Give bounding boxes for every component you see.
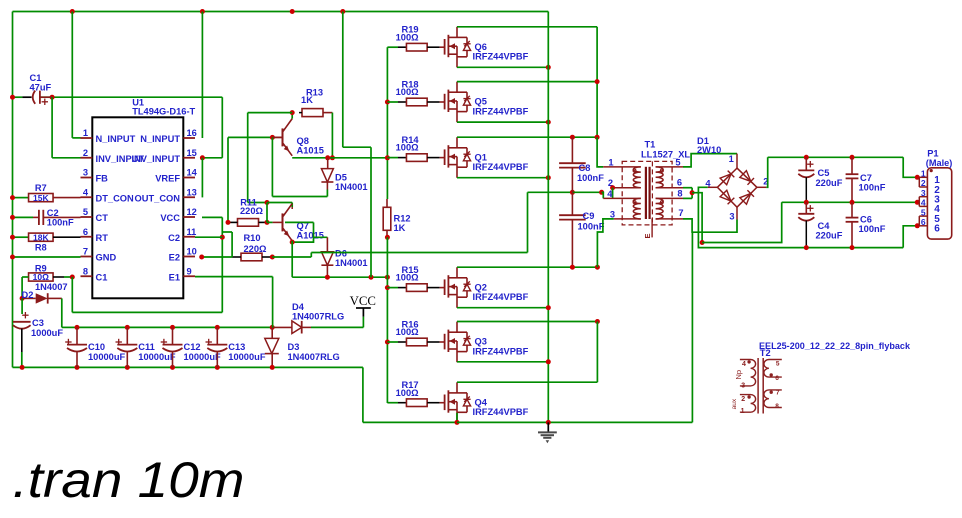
pin 15 U1 (131, 148, 196, 164)
svg-text:11: 11 (187, 227, 197, 237)
junction D3 bottom (270, 365, 275, 370)
svg-text:1: 1 (608, 157, 613, 167)
svg-text:100Ω: 100Ω (396, 388, 420, 398)
junction Q5 source (546, 120, 551, 125)
junction top rail x=343 (340, 9, 345, 14)
svg-text:R10: R10 (243, 233, 260, 243)
svg-text:7: 7 (83, 247, 88, 257)
svg-text:IRFZ44VPBF: IRFZ44VPBF (473, 292, 529, 302)
transistor Q4 (431, 382, 529, 423)
junction P1 pin6 (915, 223, 920, 228)
junction C7 top (850, 155, 855, 160)
pin E T1 shield (643, 219, 652, 239)
wire Q8 base red (272, 136, 282, 138)
svg-text:6: 6 (775, 375, 779, 382)
svg-text:100Ω: 100Ω (396, 273, 420, 283)
svg-text:Q6: Q6 (475, 42, 487, 52)
svg-text:D3: D3 (288, 342, 300, 352)
winding T1 secondary-bottom (656, 198, 664, 219)
transformer T1 box (622, 140, 690, 225)
pin 16 U1 (140, 128, 197, 144)
svg-text:VCC: VCC (160, 213, 180, 223)
resistor R9 (22, 263, 72, 282)
wire center-tap row (528, 191, 573, 193)
wire capacitor-bank top rail (77, 326, 272, 328)
pin 12 U1 (160, 207, 196, 223)
pin 1 U1 (81, 128, 136, 144)
junction C8 top (570, 135, 575, 140)
junction gate-row-277 (385, 275, 390, 280)
svg-text:5: 5 (83, 207, 88, 217)
svg-text:Q4: Q4 (475, 397, 488, 407)
transistor Q1 (431, 137, 529, 178)
svg-text:13: 13 (187, 187, 197, 197)
resistor R19 (396, 25, 431, 51)
svg-text:5: 5 (675, 157, 680, 167)
wire D2 cathode down (62, 298, 77, 327)
pin 8 T1 (656, 189, 683, 199)
capacitor C2 (33, 208, 81, 228)
svg-text:T1: T1 (645, 140, 656, 150)
diode D4 (272, 302, 344, 334)
svg-text:100nF: 100nF (859, 224, 886, 234)
junction C10 top (75, 325, 80, 330)
junction top rail x=202 (200, 9, 205, 14)
svg-text:220Ω: 220Ω (240, 206, 264, 216)
svg-text:D6: D6 (335, 248, 347, 258)
wire pin2 link (52, 97, 80, 158)
svg-text:8: 8 (83, 266, 88, 276)
svg-text:2: 2 (921, 178, 926, 188)
resistor R16 (396, 319, 431, 345)
transistor Q2 (431, 267, 529, 308)
wire Q6 source (457, 66, 548, 68)
junction C5 top (804, 155, 809, 160)
svg-text:1K: 1K (301, 95, 313, 105)
wire Q2 drain (457, 266, 597, 268)
svg-text:aux: aux (731, 398, 738, 409)
svg-text:Q3: Q3 (475, 337, 487, 347)
wire T1.7 to D1.3 (683, 219, 737, 232)
svg-text:N_INPUT: N_INPUT (140, 134, 180, 144)
junction C2 left (10, 215, 15, 220)
svg-text:100Ω: 100Ω (396, 327, 420, 337)
svg-text:R7: R7 (35, 183, 47, 193)
svg-text:220uF: 220uF (816, 178, 843, 188)
junction C1 left (10, 95, 15, 100)
svg-text:C1: C1 (96, 272, 108, 282)
pin 11 U1 (168, 227, 196, 243)
wire ground-rail step (363, 367, 457, 422)
junction T1 pin2 (610, 185, 615, 190)
junction C4 bottom (804, 245, 809, 250)
svg-text:1N4007RLG: 1N4007RLG (292, 311, 344, 321)
wire GND pin7 row (13, 256, 81, 258)
junction R8 left (10, 235, 15, 240)
svg-text:C11: C11 (138, 342, 155, 352)
junction R13 left (290, 110, 295, 115)
svg-text:GND: GND (96, 253, 117, 263)
junction Q8 base (270, 135, 275, 140)
directive .tran (13, 452, 245, 508)
winding T2 Np (734, 360, 755, 390)
wire bottom rail to P1.6 (903, 226, 917, 248)
wire pin1 link (72, 12, 80, 138)
resistor R12 (383, 158, 410, 238)
svg-text:4: 4 (921, 198, 926, 208)
svg-text:14: 14 (187, 168, 198, 178)
junction D3 top (270, 325, 275, 330)
diode-bridge D1 (697, 136, 768, 221)
wire D1.3 down tail (691, 232, 693, 422)
wire sec tap out (692, 193, 702, 243)
winding T2 sec-top (764, 360, 782, 382)
wire D5 bottom link (272, 137, 327, 196)
capacitor C1 (22, 73, 52, 105)
svg-text:VCC: VCC (350, 294, 376, 308)
junction C9 bottom (570, 265, 575, 270)
svg-text:10Ω: 10Ω (33, 272, 49, 282)
transistor Q6 (431, 27, 529, 68)
junction top rail x=292 (290, 9, 295, 14)
junction D5 top (325, 155, 330, 160)
junction Q7 collector node (265, 200, 270, 205)
svg-text:12: 12 (187, 207, 197, 217)
junction vcc-drop (369, 275, 374, 280)
junction D2 anode (20, 296, 25, 301)
svg-text:D2: D2 (22, 290, 34, 300)
winding T1 primary-top (633, 167, 641, 188)
wire R7 row (13, 197, 29, 199)
svg-text:15: 15 (187, 148, 197, 158)
pin 7 U1 (81, 247, 117, 263)
svg-text:100nF: 100nF (47, 218, 74, 228)
svg-text:C7: C7 (860, 173, 872, 183)
svg-text:10000uF: 10000uF (138, 352, 176, 362)
svg-text:220Ω: 220Ω (244, 244, 268, 254)
svg-text:R12: R12 (394, 213, 411, 223)
junction Q3 drain (595, 319, 600, 324)
capacitor C13 (206, 327, 266, 367)
wire center-tap to T1 (572, 191, 601, 193)
capacitor C5 (798, 157, 842, 202)
wire Q3 drain (457, 321, 597, 323)
pin 1 T1 (603, 157, 641, 167)
junction pin7 left (10, 255, 15, 260)
junction R11 right (265, 220, 270, 225)
wire gate rail lower (386, 237, 388, 403)
connector P1 (919, 149, 952, 240)
svg-text:LL1527_XL: LL1527_XL (641, 149, 690, 159)
svg-text:OUT_CON: OUT_CON (135, 193, 181, 203)
svg-text:8: 8 (775, 403, 779, 410)
wire Q8 emitter row (292, 157, 387, 159)
pin 6 T1 (656, 177, 683, 187)
resistor R11 (228, 198, 267, 227)
wire bottom-left rail (13, 366, 363, 368)
junction top rail x=73 (70, 9, 75, 14)
wire D6 top link (285, 222, 327, 242)
svg-text:E: E (643, 233, 652, 238)
svg-text:1: 1 (729, 154, 734, 164)
wire Q1 source (457, 177, 548, 179)
wire D1.2 to top rail (766, 157, 767, 187)
wire source rail (547, 12, 549, 423)
resistor R8 (29, 232, 81, 252)
svg-text:INV_INPUT: INV_INPUT (131, 154, 180, 164)
capacitor C11 (116, 327, 176, 367)
svg-text:4: 4 (83, 187, 89, 197)
wire Q7 emitter down (291, 241, 293, 277)
op-amp U1 TL494G-D16-T body (92, 98, 195, 299)
svg-text:1N4001: 1N4001 (335, 182, 368, 192)
svg-text:IRFZ44VPBF: IRFZ44VPBF (473, 407, 529, 417)
junction C13 top (215, 325, 220, 330)
junction C12 top (170, 325, 175, 330)
wire pin13-14 tie (201, 158, 203, 198)
wire pin11 link (195, 236, 222, 238)
junction R11 left (226, 220, 231, 225)
wire T1 pin3 link (597, 219, 613, 267)
pin 3 U1 (81, 168, 109, 184)
wire Q6 drain (457, 26, 597, 28)
wire Q3 source (457, 361, 548, 363)
junction Q6 source (546, 65, 551, 70)
wire T1 pin6-8 tie (683, 188, 692, 199)
wire E2 pin10 link (202, 256, 232, 258)
svg-text:100Ω: 100Ω (396, 32, 420, 42)
junction Q1 source (546, 175, 551, 180)
wire center-tap riser (527, 192, 529, 252)
svg-text:1: 1 (741, 408, 745, 415)
wire ground rail right (457, 421, 692, 423)
wire emitter row (272, 253, 527, 258)
wire Q2 source (457, 307, 548, 309)
junction C11 bottom (125, 365, 130, 370)
capacitor C10 (65, 327, 125, 367)
svg-text:Np: Np (734, 370, 743, 380)
svg-text:6: 6 (934, 224, 940, 235)
junction D6 bottom (325, 275, 330, 280)
svg-text:C3: C3 (32, 318, 44, 328)
wire pin16 link (201, 12, 203, 139)
winding T2 sec-bottom (764, 390, 782, 411)
junction Q5 drain (595, 79, 600, 84)
resistor R14 (396, 135, 431, 161)
wire mid-rail link (702, 202, 782, 242)
svg-text:DT_CON: DT_CON (96, 193, 135, 203)
wire drain rail (596, 27, 598, 137)
svg-text:2: 2 (741, 396, 745, 403)
resistor R15 (396, 265, 431, 291)
junction C13 bottom (215, 365, 220, 370)
svg-text:100nF: 100nF (859, 183, 886, 193)
wire VCC branch (343, 12, 371, 278)
wire R8 row (13, 236, 29, 238)
pin 4 T1 (603, 189, 641, 199)
junction T1 pin4 wire (599, 190, 604, 195)
svg-text:100Ω: 100Ω (396, 143, 420, 153)
pin 5 U1 (81, 207, 109, 223)
svg-text:C9: C9 (583, 211, 595, 221)
resistor R7 (29, 183, 81, 203)
svg-text:IRFZ44VPBF: IRFZ44VPBF (473, 106, 529, 116)
wire R16 lead (387, 341, 406, 343)
pin 2 T1 (608, 178, 641, 188)
svg-text:9: 9 (187, 266, 192, 276)
svg-text:Q8: Q8 (297, 136, 309, 146)
wire C1 row (13, 96, 223, 98)
svg-text:T2: T2 (760, 348, 771, 358)
svg-text:1: 1 (83, 128, 88, 138)
wire left rail (12, 12, 14, 368)
junction R10 right (270, 255, 275, 260)
capacitor C4 (798, 202, 842, 247)
pin 2 U1 (81, 148, 145, 164)
svg-text:10000uF: 10000uF (184, 352, 222, 362)
junction C1 right (50, 95, 55, 100)
svg-text:RT: RT (96, 233, 109, 243)
transistor Q7 (273, 204, 324, 241)
pin 10 U1 (169, 247, 197, 263)
winding T2 aux (731, 395, 756, 415)
transformer T1 core (646, 167, 650, 219)
svg-text:10000uF: 10000uF (88, 352, 126, 362)
resistor R10 (232, 233, 272, 261)
svg-text:7: 7 (776, 390, 780, 397)
wire Q7 collector link (267, 203, 292, 208)
svg-text:FB: FB (96, 174, 109, 184)
junction Q7 emitter (290, 240, 295, 245)
pin 8 U1 (81, 266, 108, 282)
junction pin10 (199, 255, 204, 260)
svg-text:E1: E1 (169, 272, 180, 282)
wire T1 pin1 link (597, 137, 603, 167)
svg-text:D4: D4 (292, 302, 305, 312)
svg-text:3: 3 (729, 211, 734, 221)
wire R18 lead (387, 101, 406, 103)
winding T1 secondary-top (656, 167, 664, 188)
wire top rail to P1.1 (903, 157, 917, 177)
svg-text:VREF: VREF (155, 174, 180, 184)
transistor Q8 (273, 119, 324, 156)
pin 6 U1 (81, 227, 109, 243)
winding T1 primary-bottom (633, 198, 641, 219)
capacitor C8 (559, 137, 604, 192)
wire pin15 top link (202, 97, 222, 158)
svg-text:47uF: 47uF (30, 83, 52, 93)
svg-text:C2: C2 (168, 233, 180, 243)
junction pin11 (220, 235, 225, 240)
junction sec-tap corner (700, 240, 705, 245)
pin 5 T1 (656, 157, 683, 167)
svg-text:4: 4 (607, 189, 613, 199)
svg-text:3: 3 (921, 188, 926, 198)
wire R14 lead (387, 157, 406, 159)
svg-text:CT: CT (96, 213, 109, 223)
junction gate-R14 (385, 155, 390, 160)
svg-text:15K: 15K (33, 193, 49, 203)
svg-text:C13: C13 (228, 342, 245, 352)
transistor Q5 (431, 82, 529, 123)
diode D2 (22, 282, 68, 304)
wire output mid rail (782, 201, 918, 203)
junction R13-emitter (330, 155, 335, 160)
wire R10 left up (222, 232, 232, 257)
junction pin15 (200, 155, 205, 160)
resistor R13 (299, 88, 332, 117)
wire collector red (291, 207, 293, 209)
svg-text:6: 6 (677, 177, 682, 187)
svg-text:4: 4 (742, 361, 746, 368)
svg-text:IRFZ44VPBF: IRFZ44VPBF (473, 52, 529, 62)
svg-text:C1: C1 (30, 73, 42, 83)
svg-text:3: 3 (610, 209, 615, 219)
svg-text:1N4001: 1N4001 (335, 258, 368, 268)
junction R9 right pin8 (70, 275, 75, 280)
diode D5 (321, 158, 367, 192)
svg-text:TL494G-D16-T: TL494G-D16-T (132, 107, 195, 117)
wire Q4 drain (457, 322, 597, 383)
svg-text:3: 3 (741, 383, 745, 390)
svg-text:A1015: A1015 (297, 146, 324, 156)
junction gate-R18 (385, 100, 390, 105)
svg-text:C2: C2 (47, 208, 59, 218)
svg-text:2W10: 2W10 (697, 145, 721, 155)
svg-text:220uF: 220uF (816, 231, 843, 241)
junction C5 bottom (804, 200, 809, 205)
junction T1 pin3 node (595, 265, 600, 270)
svg-text:.tran 10m: .tran 10m (13, 452, 245, 508)
wire R9 left down (21, 277, 23, 298)
svg-text:3: 3 (83, 168, 88, 178)
capacitor C6 (846, 202, 886, 247)
svg-text:18K: 18K (33, 232, 49, 242)
wire output bottom rail (770, 247, 903, 249)
svg-text:8: 8 (677, 189, 682, 199)
resistor R17 (396, 380, 431, 406)
svg-text:R8: R8 (35, 243, 47, 253)
pin 4 U1 (81, 187, 135, 203)
svg-text:C6: C6 (860, 215, 872, 225)
svg-text:A1015: A1015 (297, 231, 324, 241)
transformer T2 labels (759, 341, 911, 358)
pin 14 U1 (155, 168, 197, 184)
wire Q8 base row (228, 137, 272, 222)
diode D3 (265, 327, 340, 367)
wire D6 bottom row (292, 276, 387, 278)
svg-text:7: 7 (678, 208, 683, 218)
svg-text:10000uF: 10000uF (228, 352, 266, 362)
junction C8-C9 (570, 190, 575, 195)
junction Q3 source (546, 359, 551, 364)
svg-text:100Ω: 100Ω (396, 87, 420, 97)
wire R13 right down (331, 113, 333, 158)
transistor Q3 (431, 322, 529, 363)
pin 7 T1 (656, 208, 684, 219)
junction C10 bottom (75, 365, 80, 370)
svg-text:(Male): (Male) (926, 158, 953, 168)
junction gate-R16 (385, 340, 390, 345)
junction C12 bottom (170, 365, 175, 370)
pin 9 U1 (169, 266, 195, 282)
svg-text:6: 6 (921, 217, 926, 227)
wire T1.5 to D1.1 (683, 154, 737, 167)
capacitor C12 (161, 327, 221, 367)
wire D4 to VCC (311, 317, 363, 328)
svg-text:100nF: 100nF (578, 221, 605, 231)
junction C3 bottom (20, 365, 25, 370)
